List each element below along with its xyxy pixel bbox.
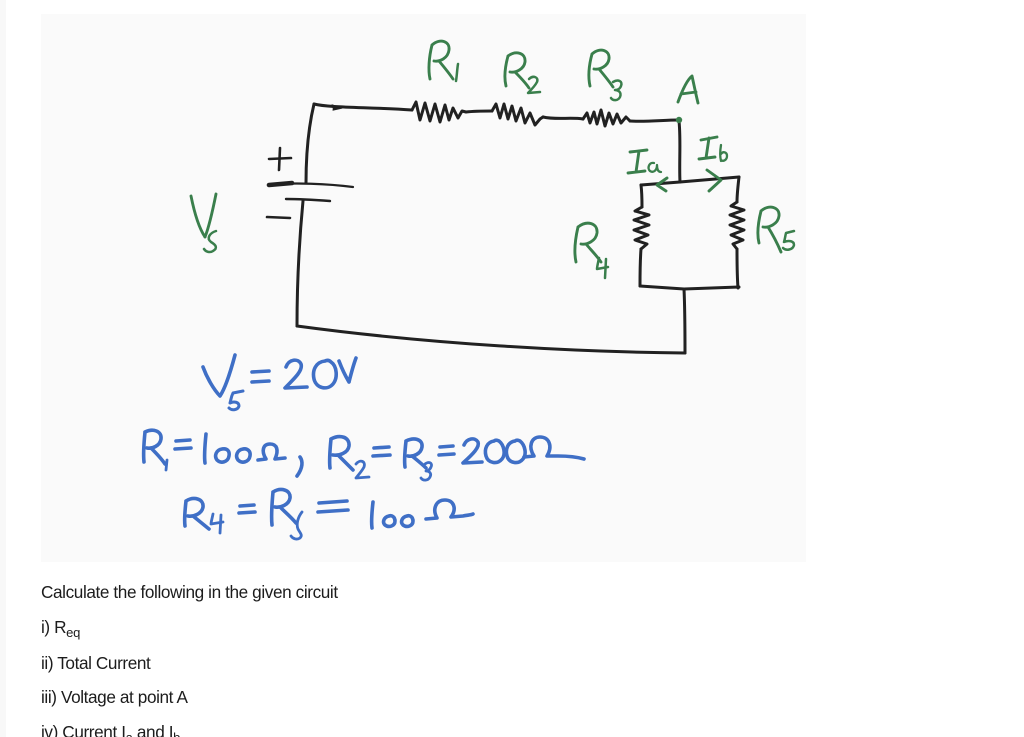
- equals after R3: [439, 446, 454, 455]
- label R1 (green): [429, 41, 453, 79]
- label Vs subscript s: [204, 231, 216, 252]
- ohm symbol after final 100: [426, 500, 473, 519]
- R5 value: letter R: [272, 490, 296, 525]
- resistor R5: [730, 202, 744, 249]
- plus sign horizontal stroke: [269, 158, 291, 159]
- label R5 (green): [758, 207, 781, 252]
- unit V of 20V: [339, 358, 356, 382]
- label Vs (green): [191, 194, 216, 237]
- value label Vs = 20V (blue handwriting): [203, 355, 235, 396]
- equals after R1: [175, 440, 191, 449]
- resistor R2: [492, 104, 543, 125]
- wire top rail left segment: [314, 104, 412, 110]
- label Ib subscript b: [720, 145, 727, 161]
- resistor R3: [583, 110, 630, 126]
- 100 value: second o: [402, 516, 413, 527]
- wire bottom rail: [297, 326, 685, 353]
- question text: [41, 582, 338, 603]
- battery Vs top plate pressure blob: [269, 183, 292, 185]
- wire between R1 and R2: [466, 111, 492, 112]
- minus sign: [267, 217, 290, 218]
- R5 value subscript 5: [291, 512, 302, 539]
- resistor R4: [634, 207, 649, 249]
- node A junction dot: [676, 117, 682, 123]
- long equals after R5: [318, 501, 348, 512]
- 100: first o: [216, 449, 230, 462]
- equals sign after Vs: [252, 371, 269, 382]
- R1 value subscript 1: [166, 460, 167, 470]
- label R2 (green): [505, 53, 529, 88]
- label R1 subscript 1: [456, 64, 458, 81]
- R3 value: letter R: [405, 439, 426, 468]
- label R4 subscript 4: [597, 258, 608, 278]
- wire R4 branch lower lead: [640, 249, 641, 286]
- label A (node name, green): [678, 76, 698, 103]
- R2 value: letter R: [330, 437, 353, 470]
- equals after R4: [239, 505, 255, 513]
- resistor R1: [412, 102, 466, 122]
- wire top-left vertical (Vs + terminal to top rail): [306, 104, 314, 183]
- label Ib (green): [699, 137, 717, 159]
- wire node A down to parallel junction: [679, 121, 680, 182]
- R4 value: letter R: [185, 499, 209, 529]
- label R5 subscript 5: [783, 231, 794, 250]
- 100 value: digit 1: [372, 502, 373, 528]
- label Ia (green): [628, 150, 647, 173]
- equals after R2: [373, 447, 390, 456]
- battery Vs bottom plate: [286, 199, 330, 201]
- 100 written loo: digit 1: [205, 434, 206, 463]
- ohm symbol after 100: [258, 444, 285, 460]
- second 0 of 200: [506, 440, 525, 462]
- wire R3 to node A: [630, 120, 678, 121]
- 100 value: first o: [384, 516, 395, 527]
- battery Vs top plate: [268, 184, 353, 187]
- left gray strip: [0, 0, 6, 737]
- digit 2 of 20V: [285, 360, 307, 388]
- wire parallel network top edge: [641, 177, 739, 185]
- arrow for current Ib: [707, 170, 721, 191]
- ohm symbol after 200: [524, 437, 584, 459]
- 100: second o: [237, 449, 251, 462]
- whiteboard canvas background: [41, 14, 806, 562]
- label R4 (green): [575, 223, 601, 262]
- wire parallel network bottom edge: [640, 286, 739, 289]
- wire R5 branch lower lead: [737, 249, 738, 288]
- label Ia subscript a: [649, 163, 661, 172]
- R2 value subscript 2: [356, 461, 369, 478]
- R4 value subscript 4: [211, 514, 223, 533]
- wire bottom-right vertical: [684, 289, 685, 353]
- wire bottom-left vertical (Vs - terminal to bottom rail): [297, 201, 303, 326]
- wire R4 branch upper lead: [641, 185, 642, 207]
- arrow for current Ia: [657, 178, 667, 191]
- current direction arrowhead on top rail: [332, 105, 342, 110]
- R1 value: letter R: [144, 430, 165, 464]
- wire between R2 and R3: [543, 117, 583, 119]
- wire R5 branch upper lead: [737, 177, 739, 202]
- first 0 of 200: [485, 440, 504, 462]
- comma: [297, 457, 302, 476]
- label R2 subscript 2: [528, 77, 540, 93]
- plus sign vertical stroke: [279, 148, 280, 170]
- Vs value subscript s: [229, 391, 243, 410]
- label R3 (green): [589, 50, 613, 87]
- digit 2 of 200: [463, 439, 482, 463]
- R3 value subscript 3: [421, 463, 432, 481]
- digit 0 of 20V: [313, 360, 336, 388]
- label R3 subscript 3: [611, 81, 621, 101]
